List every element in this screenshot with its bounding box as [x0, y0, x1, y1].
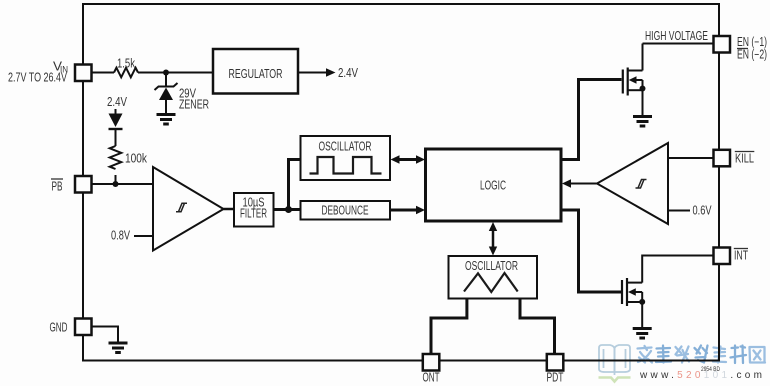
svg-text:PDT: PDT: [547, 371, 564, 385]
svg-text:1.5k: 1.5k: [117, 57, 136, 71]
svg-text:ONT: ONT: [423, 371, 440, 385]
svg-text:0.6V: 0.6V: [693, 204, 712, 218]
svg-text:REGULATOR: REGULATOR: [229, 66, 283, 81]
svg-text:FILTER: FILTER: [240, 207, 267, 221]
svg-text:EN (−2): EN (−2): [737, 48, 767, 62]
svg-text:DEBOUNCE: DEBOUNCE: [322, 204, 369, 218]
svg-text:GND: GND: [50, 321, 68, 335]
svg-text:2.4V: 2.4V: [338, 66, 359, 80]
svg-text:2.7V TO 26.4V: 2.7V TO 26.4V: [8, 71, 67, 85]
svg-text:2.4V: 2.4V: [107, 95, 128, 109]
svg-text:PB: PB: [52, 180, 63, 194]
svg-text:OSCILLATOR: OSCILLATOR: [465, 259, 518, 273]
svg-text:OSCILLATOR: OSCILLATOR: [319, 140, 372, 154]
svg-text:ZENER: ZENER: [179, 98, 209, 112]
svg-text:100k: 100k: [125, 152, 148, 166]
svg-text:INT: INT: [734, 249, 748, 263]
svg-text:KILL: KILL: [735, 152, 754, 166]
svg-text:HIGH VOLTAGE: HIGH VOLTAGE: [645, 29, 708, 43]
svg-text:0.8V: 0.8V: [111, 229, 130, 243]
svg-text:LOGIC: LOGIC: [480, 179, 506, 193]
